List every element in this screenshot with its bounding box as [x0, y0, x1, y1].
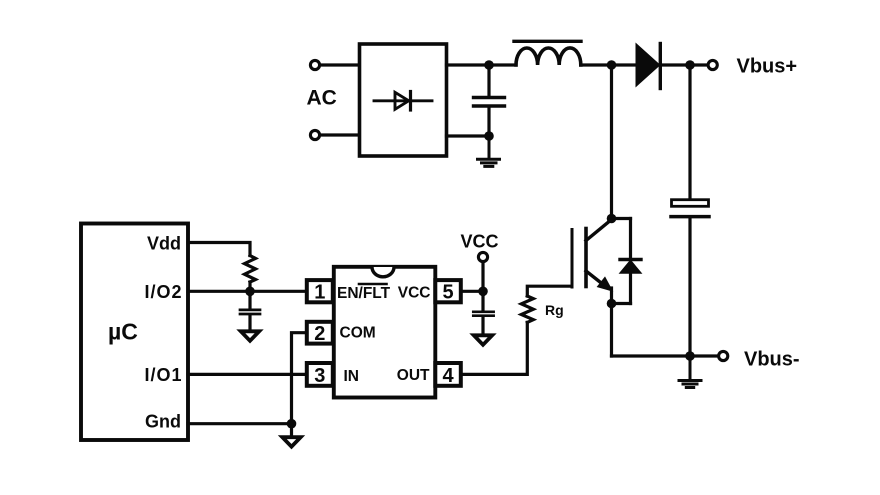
node I (emitter) [607, 299, 617, 309]
node G (VCC / pin5 / C4) [478, 287, 488, 297]
svg-text:EN/FLT: EN/FLT [337, 285, 391, 302]
svg-text:I/O1: I/O1 [144, 365, 182, 385]
wire I/O2 to pin 1 [188, 290, 307, 293]
svg-text:VCC: VCC [460, 231, 498, 251]
svg-text:VCC: VCC [398, 285, 431, 302]
wire AC top to bridge [321, 63, 360, 66]
wire emitter down to Vbus- rail [610, 304, 613, 357]
pin 4 [435, 363, 461, 387]
wire node D down to bus capacitor [688, 65, 691, 199]
node F (Gnd / COM) [287, 419, 297, 429]
wire I/O1 to pin 3 [188, 373, 307, 376]
svg-text:COM: COM [340, 324, 376, 341]
svg-text:AC: AC [307, 87, 337, 110]
svg-text:5: 5 [442, 281, 453, 303]
ground signal under C4 [474, 335, 492, 345]
node C (L1 / D1 / IGBT collector) [607, 60, 617, 70]
svg-text:1: 1 [314, 281, 325, 303]
transistor Q1 IGBT [572, 220, 612, 291]
ground earth at Vbus- [679, 356, 701, 388]
wire D2 to emitter node [612, 302, 631, 305]
bridge rectifier BR1 [360, 44, 447, 156]
wire L1 to D1 [581, 63, 637, 66]
svg-text:I/O2: I/O2 [144, 282, 182, 302]
microcontroller uC box [81, 224, 188, 441]
terminal VCC [478, 252, 487, 261]
diode D2 freewheel [620, 219, 641, 304]
wire Vdd to R1 [188, 243, 250, 256]
resistor Rg [521, 296, 533, 322]
wire Rg to IGBT gate [527, 286, 570, 296]
wire VCC to node G [481, 262, 484, 292]
pin 2 [307, 322, 333, 345]
ground signal under node F [282, 424, 300, 447]
node H (collector) [607, 214, 617, 224]
wire bridge minus to node B [447, 134, 490, 137]
wire pin 4 OUT to Rg [461, 322, 528, 374]
svg-text:2: 2 [314, 323, 325, 345]
capacitor C4 [473, 291, 493, 335]
svg-text:3: 3 [314, 365, 325, 387]
wire R1 to node E [248, 282, 251, 291]
wire emitter rail [610, 288, 613, 304]
svg-text:µC: µC [108, 319, 138, 345]
ground signal under C2 [241, 331, 259, 341]
pin 1 [307, 280, 333, 303]
terminal Vbus- [719, 351, 728, 360]
svg-text:Rg: Rg [545, 302, 564, 318]
diode D1 boost [637, 44, 661, 89]
svg-text:4: 4 [442, 365, 454, 387]
ground earth under C1 [478, 136, 500, 166]
gate driver U1 [334, 267, 436, 398]
svg-text:IN: IN [344, 368, 360, 385]
node J (Vbus- / bus cap / ground) [685, 351, 695, 361]
capacitor C3 bus electrolytic [671, 200, 709, 217]
capacitor C2 [240, 291, 260, 331]
svg-text:OUT: OUT [397, 367, 430, 384]
pin 3 [307, 363, 333, 387]
capacitor C1 filter [474, 65, 505, 136]
wire bridge plus output [447, 63, 517, 66]
node E (R1 / C2 / I-O2 line) [245, 287, 255, 297]
svg-text:Vbus-: Vbus- [744, 348, 800, 370]
label EN/FLT pin1 [337, 284, 391, 302]
wire Gnd to node F [188, 422, 292, 425]
terminal Vbus+ [708, 60, 717, 69]
resistor R1 [245, 256, 256, 283]
wire collector to D2 [612, 217, 631, 220]
AC terminal top [310, 60, 319, 69]
wire D1 to Vbus+ terminal [661, 63, 707, 66]
node D (D1 / bus cap) [685, 60, 695, 70]
wire Vbus- rail [612, 354, 718, 357]
wire AC bottom to bridge [321, 133, 360, 136]
node B (bridge- / C1 / ground) [484, 131, 494, 141]
wire pin 2 COM down to node F [292, 333, 307, 424]
svg-text:Vbus+: Vbus+ [737, 56, 798, 78]
svg-text:Gnd: Gnd [145, 412, 181, 432]
wire C3 down to Vbus- rail [688, 218, 691, 356]
wire pin 5 to node G [461, 290, 483, 293]
wire node C down to IGBT collector [610, 65, 613, 219]
svg-text:Vdd: Vdd [147, 234, 181, 254]
pin 5 [435, 280, 461, 303]
node A (bridge+ / C1 / L1) [484, 60, 494, 70]
AC terminal bottom [310, 130, 319, 139]
inductor L1 [514, 41, 581, 65]
